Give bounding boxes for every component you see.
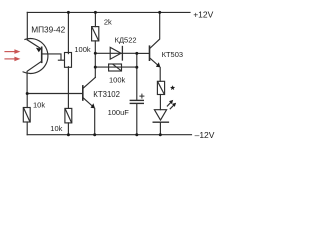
- trimmer wiper tee bar: [58, 59, 63, 61]
- wire diode row: [95, 52, 137, 54]
- light arrow 2 (red): [5, 57, 20, 62]
- wire R6 to LED: [159, 95, 161, 110]
- node resistor row right: [135, 66, 138, 69]
- wire VT3 base line: [137, 52, 149, 54]
- svg-text:10k: 10k: [33, 100, 45, 109]
- wire capacitor to bottom rail: [136, 104, 138, 135]
- node bottom rail / capacitor: [135, 133, 138, 136]
- resistor R2 100k trimmer: [65, 53, 72, 68]
- wire bottom -12V rail: [27, 134, 191, 136]
- capacitor C1 100uF polarized: [130, 94, 144, 103]
- node resistor row left: [94, 66, 97, 69]
- svg-text:100k: 100k: [109, 75, 126, 84]
- resistor R3 2k: [92, 27, 99, 41]
- resistor R5 100k (horizontal): [109, 64, 122, 71]
- svg-text:КТ3102: КТ3102: [93, 90, 120, 99]
- label asterisk: [170, 85, 175, 90]
- LED emission arrow 1: [167, 100, 173, 106]
- wire trimmer bottom crossing base line down to R4: [67, 67, 69, 109]
- svg-text:КТ503: КТ503: [162, 50, 183, 59]
- node diode row left: [94, 52, 97, 55]
- svg-text:+12V: +12V: [193, 9, 213, 19]
- svg-text:2k: 2k: [104, 18, 112, 27]
- wire base line: photocollector node to VT2 base: [27, 93, 82, 95]
- wire top +12V rail: [27, 11, 190, 13]
- svg-text:100uF: 100uF: [108, 108, 130, 117]
- wire R4 to bottom rail: [67, 123, 69, 135]
- wire LED to bottom rail: [159, 122, 161, 135]
- resistor R4 10k (middle): [65, 108, 72, 123]
- transistor VT3 КТ503: [150, 12, 161, 81]
- diode VD1 КД522: [110, 47, 122, 61]
- wire right node vertical to capacitor: [136, 53, 138, 99]
- svg-text:100k: 100k: [74, 45, 91, 54]
- svg-text:КД522: КД522: [115, 36, 137, 45]
- svg-text:МП39-42: МП39-42: [31, 25, 65, 35]
- resistor R6 star-rated (LED ballast): [157, 81, 164, 94]
- node bottom rail / VT2 emitter: [93, 133, 96, 136]
- LED VD2: [153, 110, 168, 123]
- node top rail / KT503 collector: [158, 11, 161, 14]
- node top rail / trimmer: [67, 11, 70, 14]
- transistor VT1 МП39-42 phototransistor (PNP in open circle): [23, 39, 48, 94]
- wire R1 to bottom rail: [26, 122, 28, 135]
- wire 2k chain from top rail: [94, 12, 96, 26]
- wire 2k bottom to collector node: [94, 41, 96, 78]
- svg-text:10k: 10k: [50, 124, 62, 133]
- light arrow 1 (red): [5, 49, 20, 54]
- wire 100k row: [95, 66, 137, 68]
- wire left vertical from +12V to phototransistor emitter: [26, 12, 28, 40]
- node bottom rail / LED: [159, 133, 162, 136]
- wire phototransistor base to trimmer wiper: [42, 54, 61, 60]
- node base line / photocollector: [26, 92, 29, 95]
- svg-text:–12V: –12V: [195, 130, 215, 140]
- resistor R1 10k (left): [23, 108, 30, 123]
- LED emission arrow 2: [170, 103, 176, 109]
- transistor VT2 КТ3102: [83, 77, 96, 134]
- node diode row right: [135, 52, 138, 55]
- junction dots: [26, 11, 162, 136]
- node top rail / 2k: [94, 11, 97, 14]
- wire trimmer chain from top rail: [67, 12, 69, 53]
- wire photocollector to R1: [26, 94, 28, 108]
- node bottom rail / R4: [67, 133, 70, 136]
